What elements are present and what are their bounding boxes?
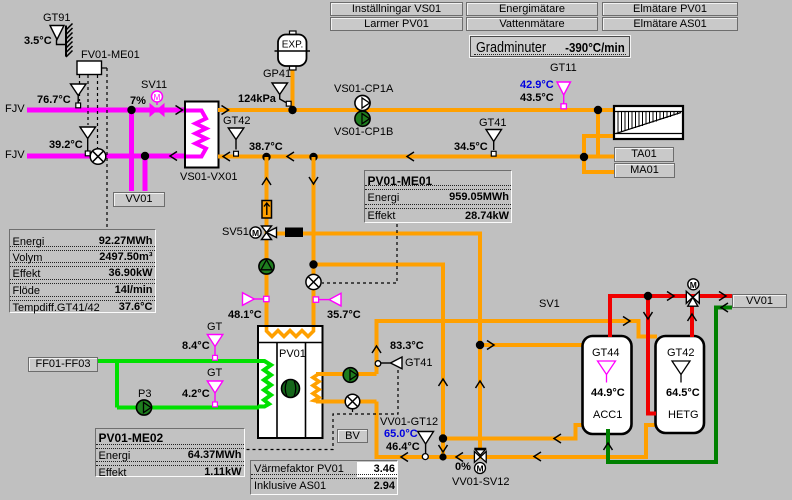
wire ACC1 top feed branch [480,343,583,347]
label GT44 [592,348,620,359]
label FJV supply [5,104,25,115]
node junction return PV01 in [309,153,317,161]
wire radiator return loop to MA01 [584,136,616,172]
wire FJV return pipe [27,154,186,159]
panel fjv energy meter [9,229,156,313]
label 34.5C [454,142,488,153]
wire ACC1 bottom line [443,425,583,439]
node junction red [644,292,652,300]
svg-text:M: M [690,280,697,290]
wire red HETG top to valve [690,302,694,337]
button VV01 left [113,192,165,207]
sensor 35.7C horizontal [313,293,341,306]
label 43.5C [520,93,554,104]
wire heating return pipe [218,155,616,159]
flow meter crossed circle on FJV return [90,149,106,165]
label 8.4C [182,341,210,352]
label 38.7C [249,142,283,153]
sensor 76.7C on FJV supply [71,84,87,108]
arrow down on condenser inlet [309,177,318,184]
wire FF brine branch down [115,361,119,408]
label SV51 [222,227,249,238]
pump VS01-CP1B [355,111,370,126]
tank HETG [656,336,705,433]
sensor GT11 on supply [557,82,571,109]
check valve box on riser [262,201,272,219]
node junction ACC1 feed [476,341,484,349]
arrow FJV out of VX01 [170,152,177,161]
valve VV01-SV12 3-way [474,449,486,463]
label 39.2C [49,140,83,151]
label SV1 [539,299,560,310]
label GP41 [263,69,291,80]
wire drop from PV01 coil to bottom return [377,402,657,458]
PV01 right coil zigzag [313,374,319,402]
wire stub junction down [441,439,445,458]
arrow green from VV01 [721,303,728,312]
wire PV01 condenser inlet drop [312,157,316,327]
node junction condenser inlet branch [309,260,317,268]
svg-text:M: M [476,464,483,474]
button FF01-FF03 [28,357,98,372]
panel PV01-ME01 [364,170,513,223]
label 35.7C [327,310,361,321]
wire riser to tank supply line [377,321,658,374]
wire heating supply pipe [218,108,616,112]
panel Värmefaktor [250,460,398,495]
label SV11 [141,80,167,91]
sensor GT42 in HETG [672,361,690,383]
label 42.9C [520,80,554,91]
pump P3 [136,400,151,415]
label GT top [207,322,222,333]
wire dashed crossed circle link [352,409,354,414]
wire FF brine return [117,406,259,410]
pump on PV01 right coil [343,368,358,383]
label GT41 bottom [405,358,433,369]
valve SV51 3-way body [262,226,277,240]
wire dashed FV01-ME01 to return sensor [87,75,89,125]
pump on condenser outlet riser [259,259,274,274]
wire dashed FV01-ME01 to energy panel [106,68,108,227]
label VV01-GT12 [380,417,438,428]
button Elmätare AS01 [602,17,738,31]
valve red 3-way body [686,291,699,306]
display Gradminuter [470,36,630,57]
node junction supply at radiator [594,106,602,114]
sensor GT42 on return [228,128,244,156]
crossed circle on PV01 right coil bottom [345,394,360,409]
label ACC1 [593,410,622,421]
valve SV51 motor [250,227,261,238]
arrow supply out of VX01 [222,106,229,115]
button Inställningar VS01 [330,2,463,16]
arrow return right [407,152,414,161]
sensor GT41 83.3C [375,357,402,369]
wire PV01 right coil bottom pipe [316,400,377,404]
wire expansion vessel drop [291,69,295,110]
valve red 3-way motor [688,279,699,290]
arrow return mid [287,152,294,161]
wire FJV tap to VV01 from return [143,156,148,191]
label VS01-CP1A [334,84,393,95]
svg-text:M: M [154,93,161,102]
arrow return into VX01 [223,152,230,161]
node junction return at radiator [580,153,588,161]
tank ACC1 [583,336,632,434]
wire red drop into ACC1 [608,296,612,337]
heat pump PV01 body [258,326,323,438]
arrow green up into ACC1 [604,443,613,450]
svg-text:M: M [252,228,259,238]
button Larmer PV01 [330,17,463,31]
wire VV01 hot water red line [608,294,733,298]
sensor VV01-GT12 [418,432,434,460]
wire dashed ME01 link [322,224,397,283]
crossed circle on condenser inlet [306,274,321,289]
node junction on FJV return [141,152,149,160]
label 4.2C [182,389,210,400]
panel PV01-ME02 [95,428,245,477]
wire FJV tap to VV01 from supply [129,110,134,191]
node junction return PV01 out [262,153,270,161]
label 76.7C [37,95,71,106]
wire dashed FV01-ME01 to supply sensor [79,75,81,101]
label VV01-SV12 [452,477,509,488]
wire dashed GT41 link [245,370,398,450]
label HETG [668,410,699,421]
wire FF brine supply [97,359,259,363]
button MA01 [614,163,675,178]
button Energimätare [466,2,598,16]
label P3 [138,389,151,400]
label FJV return [5,150,25,161]
label GT91 [43,13,71,24]
sensor GT91 outdoor [50,26,66,45]
compressor in PV01 [282,380,300,398]
sensor 39.2C on FJV return [80,127,96,156]
label GT41 [479,118,507,129]
sensor GP41 pressure [272,83,291,106]
button BV [337,429,368,443]
wire tank riser top link [314,265,444,439]
arrow up on condenser outlet [262,178,271,185]
wire PV01 right coil top pipe [316,372,377,376]
button TA01 [614,147,674,162]
label FV01-ME01 [81,50,140,61]
label 124kPa [238,94,276,105]
label 64.5C [666,388,700,399]
wire FJV supply pipe [27,108,186,113]
sensor GT 4.2C [207,381,223,407]
arrows red [667,292,674,301]
label 7% [130,96,146,107]
PV01 condenser coil zigzag [267,327,314,337]
node junction bottom lines [439,434,447,442]
button Elmätare PV01 [602,2,738,16]
wire red drop to HETG left [648,296,656,414]
label 44.9C [591,388,625,399]
label 48.1C [228,310,262,321]
label 0% [455,462,471,473]
wire PV01 condenser outlet riser [265,157,269,327]
label GT42 HETG [667,348,695,359]
meter FV01-ME01 box [77,61,102,75]
button VV01 right [732,294,787,308]
sensor 48.1C horizontal [243,293,270,306]
node junction supply at GP41 [288,106,296,114]
arrow FJV into VX01 [176,106,183,115]
wire SV51 branch to tank circuit [272,234,480,453]
wall hatch for GT91 [66,24,73,58]
sensor GT41 on return [486,130,502,157]
wire VV01 cold return dark green [608,308,732,463]
svg-text:EXP.: EXP. [282,40,304,51]
filter on SV51 branch [285,228,303,238]
wire dashed FV01-ME01 to flow meter [97,75,99,148]
label VS01-CP1B [334,127,393,138]
label GT bottom [207,368,222,379]
label 65.0C [384,429,418,440]
radiator [614,106,683,139]
wire drop to TA01 [596,110,600,157]
valve SV11 body [150,104,164,116]
arrows orange circuit [623,317,630,326]
sensor GT44 in ACC1 [598,361,616,383]
label 46.4C [386,442,420,453]
label GT11 [550,63,577,74]
label VS01-VX01 [180,172,237,183]
node junction on FJV supply [127,106,135,114]
label PV01 [279,349,306,360]
pump VS01-CP1A [355,95,370,110]
heat exchanger VS01-VX01 coil [186,111,206,157]
button Vattenmätare [466,17,598,31]
expansion vessel EXP [275,31,311,70]
valve SV11 motor [152,91,163,102]
PV01 evaporator green coil [258,361,271,407]
valve VV01-SV12 motor [475,463,486,474]
label 83.3C [390,341,424,352]
heat exchanger VS01-VX01 body [185,102,219,168]
label GT42 [223,116,251,127]
label 3.5C [24,36,52,47]
sensor GT 8.4C [207,335,223,361]
